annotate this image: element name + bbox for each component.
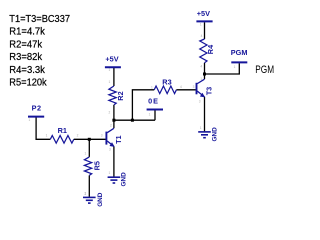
svg-text:4: 4 bbox=[201, 34, 203, 38]
svg-text:+5V: +5V bbox=[197, 9, 210, 18]
svg-text:R5: R5 bbox=[92, 161, 101, 170]
svg-text:R1=4.7k: R1=4.7k bbox=[9, 27, 45, 38]
svg-text:R2: R2 bbox=[116, 91, 125, 100]
svg-text:PGM: PGM bbox=[255, 64, 274, 76]
svg-text:1: 1 bbox=[46, 134, 48, 138]
svg-text:R4=3.3k: R4=3.3k bbox=[9, 65, 45, 76]
svg-text:1: 1 bbox=[200, 77, 202, 81]
svg-text:GND: GND bbox=[211, 127, 218, 142]
svg-text:R4: R4 bbox=[206, 44, 215, 54]
svg-text:1: 1 bbox=[149, 112, 151, 116]
svg-text:1: 1 bbox=[84, 192, 86, 196]
svg-text:2: 2 bbox=[77, 134, 79, 138]
svg-text:1: 1 bbox=[151, 85, 153, 89]
svg-text:3: 3 bbox=[199, 100, 201, 104]
svg-text:+5V: +5V bbox=[105, 55, 118, 64]
svg-text:0E: 0E bbox=[148, 97, 159, 106]
svg-text:1: 1 bbox=[200, 22, 202, 26]
svg-text:1: 1 bbox=[85, 152, 87, 156]
svg-text:R5=120k: R5=120k bbox=[9, 78, 47, 89]
svg-text:R3: R3 bbox=[162, 77, 171, 86]
svg-text:1: 1 bbox=[234, 65, 236, 69]
svg-text:3: 3 bbox=[101, 134, 103, 138]
svg-text:T1: T1 bbox=[114, 135, 123, 144]
svg-text:1: 1 bbox=[29, 118, 31, 122]
svg-text:1: 1 bbox=[200, 126, 202, 130]
svg-text:2: 2 bbox=[110, 124, 112, 128]
svg-text:P2: P2 bbox=[32, 104, 42, 113]
svg-text:T1=T3=BC337: T1=T3=BC337 bbox=[9, 14, 70, 25]
svg-text:R1: R1 bbox=[58, 126, 67, 135]
svg-text:3: 3 bbox=[109, 148, 111, 152]
svg-text:PGM: PGM bbox=[231, 48, 248, 57]
svg-text:2: 2 bbox=[109, 111, 111, 115]
svg-text:GND: GND bbox=[120, 172, 127, 187]
svg-text:GND: GND bbox=[97, 192, 104, 207]
svg-text:T3: T3 bbox=[204, 87, 213, 96]
svg-text:1: 1 bbox=[109, 68, 111, 72]
svg-text:3: 3 bbox=[193, 85, 195, 89]
svg-text:R3=82k: R3=82k bbox=[9, 52, 43, 63]
svg-text:1: 1 bbox=[109, 80, 111, 84]
svg-text:R2=47k: R2=47k bbox=[9, 39, 43, 50]
svg-text:4: 4 bbox=[180, 85, 182, 89]
svg-text:1: 1 bbox=[109, 171, 111, 175]
svg-text:4: 4 bbox=[200, 65, 202, 69]
